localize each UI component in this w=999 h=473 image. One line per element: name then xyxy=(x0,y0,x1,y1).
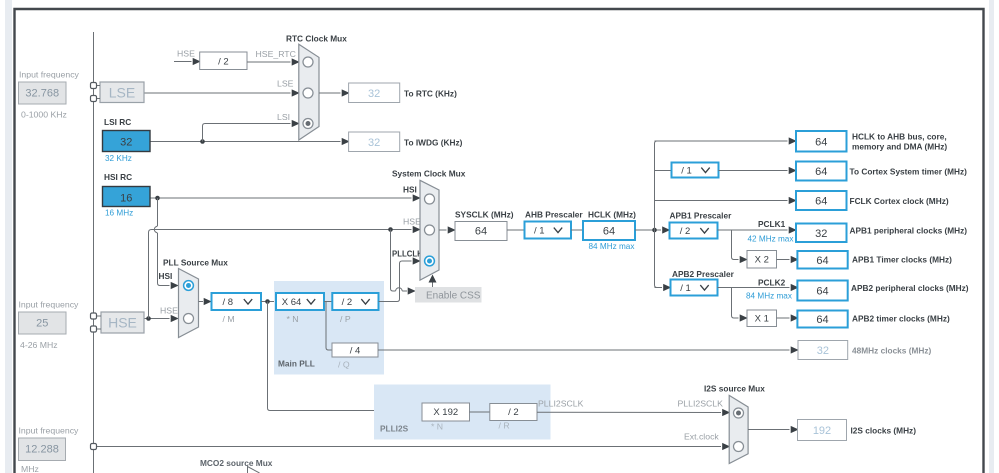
wire to FCLK output xyxy=(655,200,788,202)
output FCLK 64 xyxy=(796,191,847,210)
svg-text:HSI: HSI xyxy=(159,271,173,281)
left shade strip xyxy=(5,0,12,473)
svg-text:HCLK to AHB bus, core,: HCLK to AHB bus, core, xyxy=(852,132,947,142)
svg-text:84 MHz max: 84 MHz max xyxy=(746,292,792,301)
svg-text:LSI RC: LSI RC xyxy=(104,117,131,127)
svg-text:32: 32 xyxy=(817,345,829,357)
svg-text:APB2 Prescaler: APB2 Prescaler xyxy=(672,269,735,279)
output APB1 timer 64 xyxy=(797,251,847,269)
svg-text:AHB Prescaler: AHB Prescaler xyxy=(525,210,583,220)
wire N to P xyxy=(324,301,332,303)
svg-text:64: 64 xyxy=(603,226,615,238)
svg-text:64: 64 xyxy=(475,226,487,238)
svg-text:APB2 peripheral clocks (MHz): APB2 peripheral clocks (MHz) xyxy=(851,283,969,293)
output APB1 peripheral 32 xyxy=(796,224,847,243)
svg-text:* N: * N xyxy=(287,314,299,324)
wire cortex prescaler to output xyxy=(719,170,788,172)
svg-text:HSE: HSE xyxy=(403,217,421,227)
junction HSI branch xyxy=(155,196,160,201)
wire to HCLK AHB output xyxy=(655,140,788,142)
output To RTC xyxy=(349,83,400,103)
divider HSE_RTC /2 xyxy=(200,52,247,70)
wire PLLI2SCLK to I2S mux xyxy=(537,411,721,413)
svg-text:4-26 MHz: 4-26 MHz xyxy=(20,340,58,350)
svg-text:192: 192 xyxy=(813,425,831,437)
svg-text:HSE: HSE xyxy=(108,315,137,331)
input frequency box 12.288 xyxy=(19,438,66,461)
svg-text:APB1 peripheral clocks (MHz): APB1 peripheral clocks (MHz) xyxy=(850,226,968,236)
svg-text:/ 2: / 2 xyxy=(680,226,691,237)
svg-text:/ 8: / 8 xyxy=(222,297,233,308)
wire RTC mux to RTC box xyxy=(319,92,341,94)
input frequency box 32.768 xyxy=(19,82,67,104)
svg-text:FCLK Cortex clock (MHz): FCLK Cortex clock (MHz) xyxy=(850,196,949,206)
radio RTC HSE_RTC xyxy=(303,57,313,67)
svg-text:HSE: HSE xyxy=(160,306,178,316)
output cortex timer 64 xyxy=(796,162,847,181)
wire HSI vertical to PLL mux with hop xyxy=(157,198,159,226)
radio PLL HSE xyxy=(184,314,194,324)
oscillator LSE xyxy=(100,82,144,103)
svg-text:/ M: / M xyxy=(223,314,235,324)
svg-text:To IWDG (KHz): To IWDG (KHz) xyxy=(404,138,463,148)
svg-text:Input frequency: Input frequency xyxy=(19,70,80,80)
block PLLI2S xyxy=(374,385,551,440)
svg-text:PCLK2: PCLK2 xyxy=(758,278,786,288)
radio RTC LSE xyxy=(303,88,313,98)
svg-text:memory and DMA (MHz): memory and DMA (MHz) xyxy=(852,142,947,152)
block Main PLL xyxy=(274,281,384,375)
svg-text:64: 64 xyxy=(816,286,828,298)
divider P dropdown /2 xyxy=(332,293,378,310)
wire APB2 to X1 xyxy=(732,288,739,319)
wire HCLK vertical distribution xyxy=(655,141,658,288)
svg-text:X 192: X 192 xyxy=(433,407,458,418)
junction LSI branch xyxy=(200,139,205,144)
wire X2 to output xyxy=(777,259,790,261)
wire LSE port stubs xyxy=(97,85,101,87)
wire SYSCLK to AHB prescaler xyxy=(507,229,524,231)
port I2S CKIN xyxy=(91,444,97,450)
wire APB1 to X2 xyxy=(732,230,739,260)
svg-text:PLLI2S: PLLI2S xyxy=(380,424,409,434)
svg-text:42 MHz max: 42 MHz max xyxy=(748,235,794,244)
svg-text:APB1 Timer clocks (MHz): APB1 Timer clocks (MHz) xyxy=(852,255,952,265)
wire LSI branch to RTC mux xyxy=(203,124,291,142)
vertical chip bus line xyxy=(93,32,95,473)
multiplier I2S N X192 xyxy=(422,403,470,421)
svg-text:84 MHz max: 84 MHz max xyxy=(589,242,635,251)
port LSE osc_out xyxy=(91,96,97,102)
svg-text:Ext.clock: Ext.clock xyxy=(684,432,719,442)
wire HSE to enable CSS with hop xyxy=(391,230,396,292)
svg-text:X 2: X 2 xyxy=(755,255,769,266)
wire to cortex prescaler xyxy=(655,170,672,172)
radio RTC LSI selected xyxy=(303,119,313,129)
svg-text:PLLI2SCLK: PLLI2SCLK xyxy=(538,399,584,409)
wire to APB2 prescaler xyxy=(655,287,663,289)
svg-text:X 1: X 1 xyxy=(755,314,769,325)
wire enable CSS to mux xyxy=(432,283,434,288)
wire PLL input to PLLI2S xyxy=(268,302,422,411)
oscillator HSI RC 16 xyxy=(103,187,151,207)
svg-text:RTC Clock Mux: RTC Clock Mux xyxy=(286,34,347,44)
wire Q to 48MHz clocks xyxy=(378,349,790,351)
oscillator HSE xyxy=(101,312,144,333)
radio SYS HSE xyxy=(425,225,435,235)
wire M to N xyxy=(261,301,276,303)
input frequency box 25 xyxy=(19,312,67,334)
wire HCLK to junction xyxy=(635,229,661,231)
svg-text:System Clock Mux: System Clock Mux xyxy=(392,169,466,179)
svg-text:64: 64 xyxy=(815,196,827,208)
radio SYS HSI xyxy=(425,194,435,204)
output To IWDG xyxy=(349,132,400,152)
svg-text:I2S clocks (MHz): I2S clocks (MHz) xyxy=(851,426,917,436)
dropdown cortex prescaler /1 xyxy=(672,163,719,178)
dropdown APB1 prescaler /2 xyxy=(670,223,718,239)
junction HSE branch xyxy=(146,316,151,321)
svg-text:LSE: LSE xyxy=(109,85,135,101)
junction HCLK distribution xyxy=(652,228,657,233)
svg-text:PCLK1: PCLK1 xyxy=(758,219,786,229)
svg-text:/ R: / R xyxy=(499,421,510,431)
wire I2S mux to output xyxy=(748,429,789,431)
port LSE osc_in xyxy=(91,83,97,89)
radio I2S ext clock xyxy=(734,442,744,452)
mux I2S source xyxy=(729,395,748,463)
divider Q /4 xyxy=(332,343,378,357)
svg-text:Input frequency: Input frequency xyxy=(19,426,80,436)
port HSE osc_out xyxy=(91,326,97,332)
oscillator LSI RC 32 xyxy=(103,131,151,152)
wire HSE to rtc divider xyxy=(174,61,192,63)
svg-text:/ P: / P xyxy=(340,314,351,324)
svg-text:/ Q: / Q xyxy=(338,360,350,370)
dropdown AHB prescaler /1 xyxy=(525,222,572,239)
wire rtc divider to RTC mux xyxy=(247,61,291,63)
svg-text:64: 64 xyxy=(816,255,828,267)
wire N to Q divider xyxy=(326,302,332,351)
wire APB1 to output xyxy=(718,229,788,231)
output HCLK to AHB 64 xyxy=(796,131,847,152)
svg-text:LSE: LSE xyxy=(277,79,294,89)
wire LSI to IWDG xyxy=(150,141,341,143)
svg-text:16: 16 xyxy=(120,193,132,205)
button Enable CSS xyxy=(415,287,482,303)
wire AHB to HCLK xyxy=(571,229,583,231)
wire X192 to R divider xyxy=(470,411,490,413)
svg-text:HSI RC: HSI RC xyxy=(104,172,132,182)
svg-text:/ 2: / 2 xyxy=(342,297,353,308)
svg-text:To Cortex System timer (MHz): To Cortex System timer (MHz) xyxy=(850,167,968,177)
display SYSCLK 64 xyxy=(455,222,507,241)
junction HSE to CSS xyxy=(388,227,393,232)
svg-text:MCO2 source Mux: MCO2 source Mux xyxy=(200,458,273,468)
port HSE osc_in xyxy=(91,313,97,319)
output APB2 timer 64 xyxy=(797,311,847,328)
wire HSE to PLL mux xyxy=(144,318,170,320)
mux MCO2 partial xyxy=(248,467,260,473)
svg-text:25: 25 xyxy=(36,318,48,330)
wire X1 to output xyxy=(777,317,790,319)
svg-text:MHz: MHz xyxy=(21,464,39,473)
junction PLL input xyxy=(265,299,270,304)
svg-text:Input frequency: Input frequency xyxy=(19,300,80,310)
output I2S clocks 192 xyxy=(798,420,847,441)
wire sys mux to SYSCLK xyxy=(439,229,447,231)
svg-text:/ 1: / 1 xyxy=(680,283,691,294)
divider M dropdown /8 xyxy=(212,293,262,310)
wire Ext clock to I2S mux xyxy=(97,446,722,448)
wire HSE vertical to system clock mux xyxy=(149,230,412,319)
mux system clock xyxy=(420,180,439,280)
svg-text:APB2 timer clocks (MHz): APB2 timer clocks (MHz) xyxy=(852,314,950,324)
svg-text:16 MHz: 16 MHz xyxy=(105,209,133,218)
svg-text:HSI: HSI xyxy=(403,185,417,195)
svg-text:64: 64 xyxy=(816,314,828,326)
wire LSE to RTC mux xyxy=(144,92,291,94)
dropdown APB2 prescaler /1 xyxy=(671,280,718,296)
svg-text:12.288: 12.288 xyxy=(25,444,59,456)
svg-text:/ 2: / 2 xyxy=(218,57,229,68)
wire HSI to system clock mux xyxy=(150,197,412,199)
mux RTC clock xyxy=(299,44,319,140)
svg-text:PLL Source Mux: PLL Source Mux xyxy=(163,258,228,268)
mux PLL source xyxy=(179,269,199,338)
svg-text:0-1000 KHz: 0-1000 KHz xyxy=(21,110,67,120)
svg-text:64: 64 xyxy=(815,136,827,148)
wire APB2 to output xyxy=(718,287,790,289)
svg-text:32: 32 xyxy=(368,137,380,149)
svg-text:APB1 Prescaler: APB1 Prescaler xyxy=(670,211,733,221)
svg-text:/ 1: / 1 xyxy=(534,226,545,237)
wire HSE port stubs xyxy=(97,315,102,317)
right shade strip xyxy=(989,0,994,473)
wire PLL mux to divider M xyxy=(199,301,204,303)
wire PLLCLK to system mux xyxy=(379,261,412,302)
svg-text:32: 32 xyxy=(368,88,380,100)
svg-text:* N: * N xyxy=(431,422,443,432)
radio SYS PLLCLK selected xyxy=(425,256,435,266)
svg-text:/ 1: / 1 xyxy=(681,166,692,177)
output APB2 peripheral 64 xyxy=(797,281,847,301)
multiplier N dropdown X64 xyxy=(276,293,324,310)
multiplier X2 xyxy=(747,251,777,269)
svg-text:Enable CSS: Enable CSS xyxy=(426,291,481,302)
svg-text:32 KHz: 32 KHz xyxy=(105,154,132,163)
display HCLK 64 xyxy=(583,221,635,240)
svg-text:LSI: LSI xyxy=(277,112,290,122)
radio PLL HSI selected xyxy=(184,281,194,291)
svg-text:/ 2: / 2 xyxy=(508,407,519,418)
svg-text:32.768: 32.768 xyxy=(25,88,59,100)
divider R /2 xyxy=(490,404,537,421)
svg-text:HCLK (MHz): HCLK (MHz) xyxy=(588,210,636,220)
svg-text:32: 32 xyxy=(815,228,827,240)
radio I2S PLLI2SCLK selected xyxy=(734,408,744,418)
svg-text:X 64: X 64 xyxy=(282,297,302,308)
svg-text:HSE_RTC: HSE_RTC xyxy=(256,49,296,59)
svg-text:I2S source Mux: I2S source Mux xyxy=(704,384,765,394)
svg-text:HSE: HSE xyxy=(177,49,195,59)
svg-text:48MHz clocks (MHz): 48MHz clocks (MHz) xyxy=(852,346,932,356)
svg-text:/ 4: / 4 xyxy=(350,346,361,357)
svg-text:To RTC (KHz): To RTC (KHz) xyxy=(404,89,457,99)
svg-text:32: 32 xyxy=(120,137,132,149)
svg-text:64: 64 xyxy=(815,166,827,178)
output 48MHz clocks 32 xyxy=(798,341,848,360)
svg-text:PLLCLK: PLLCLK xyxy=(392,250,423,259)
svg-text:PLLI2SCLK: PLLI2SCLK xyxy=(678,399,724,409)
svg-text:Main PLL: Main PLL xyxy=(278,359,315,369)
multiplier X1 xyxy=(747,310,777,327)
svg-text:SYSCLK (MHz): SYSCLK (MHz) xyxy=(455,210,514,220)
